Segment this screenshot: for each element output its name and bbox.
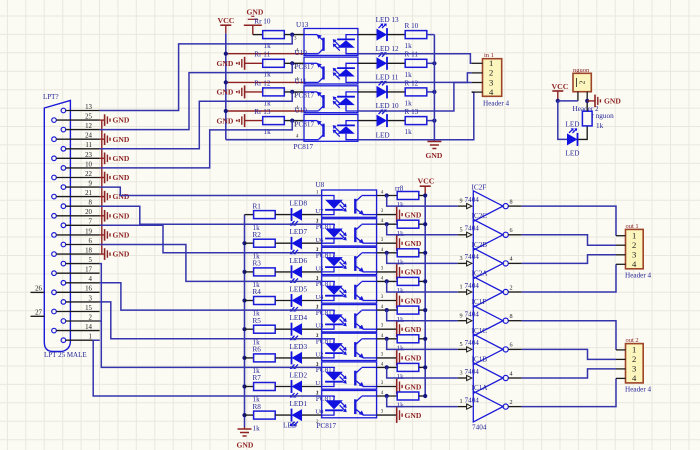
svg-text:IC1A: IC1A bbox=[472, 384, 489, 392]
wire LED to opto pin2 bbox=[302, 300, 322, 302]
pin number 2 bbox=[316, 277, 319, 282]
junction bbox=[290, 33, 294, 37]
label PC817 bbox=[295, 92, 315, 100]
label 7404 bbox=[465, 196, 480, 204]
label PC817 bbox=[316, 338, 336, 346]
svg-text:R 11: R 11 bbox=[405, 51, 419, 59]
junction bbox=[385, 251, 389, 255]
wire GND bus right of top bank bbox=[433, 35, 435, 141]
ground symbol GND at Rr13 bbox=[217, 114, 263, 127]
svg-text:GND: GND bbox=[405, 411, 422, 420]
svg-text:5: 5 bbox=[89, 257, 93, 264]
pin number 3 bbox=[381, 266, 384, 271]
pin number 3 bbox=[381, 238, 384, 243]
optocoupler U10 PC817 channel box bbox=[304, 114, 358, 141]
diode LED 12 bbox=[377, 52, 388, 70]
svg-text:5: 5 bbox=[460, 341, 463, 348]
wire opto pin4 to resistor bbox=[377, 223, 398, 225]
label 1k bbox=[397, 201, 405, 209]
label Header 4 bbox=[483, 99, 510, 107]
wire LPT pin 13 to optocoupler bbox=[100, 35, 293, 111]
wire resistor to LED bbox=[275, 414, 291, 416]
svg-text:1: 1 bbox=[632, 345, 636, 355]
svg-text:GND: GND bbox=[113, 250, 130, 259]
svg-text:1k: 1k bbox=[405, 42, 413, 50]
svg-text:LED3: LED3 bbox=[290, 343, 308, 351]
label 1k bbox=[264, 128, 272, 136]
pin number 2 bbox=[316, 334, 319, 339]
diode LED1 bbox=[290, 409, 302, 427]
svg-text:12: 12 bbox=[85, 123, 92, 130]
junction bbox=[432, 90, 436, 94]
junction bbox=[385, 193, 389, 197]
wire LPT pin 3 to opto channel 6 bbox=[100, 302, 322, 339]
label R8 bbox=[253, 403, 262, 411]
junction bbox=[423, 193, 427, 197]
svg-text:GND: GND bbox=[405, 354, 422, 363]
label PC817 bbox=[316, 252, 336, 260]
wire resistor to bus bbox=[427, 34, 435, 36]
label PC817 bbox=[316, 280, 336, 288]
label U5 bbox=[315, 265, 324, 272]
inverter IC2C 7404 bbox=[458, 219, 522, 250]
label Rr 10 bbox=[254, 18, 271, 26]
label PC817 type bbox=[294, 143, 314, 151]
pin number 2 bbox=[316, 220, 319, 225]
wire pin 1 to LED bbox=[358, 62, 377, 64]
label LED 12 bbox=[376, 45, 399, 53]
svg-text:GND: GND bbox=[405, 382, 422, 391]
pin number 3 bbox=[294, 65, 297, 70]
svg-text:PC817: PC817 bbox=[295, 92, 315, 100]
svg-text:GND: GND bbox=[217, 116, 234, 125]
wire LPT pin 4 to opto channel 5 bbox=[100, 283, 322, 310]
wire inverter IC1B output to header bbox=[522, 369, 616, 378]
resistor rr8 1k unit 5 bbox=[397, 306, 419, 314]
label PC817 type bbox=[317, 422, 337, 430]
optocoupler channel internals bbox=[322, 224, 377, 243]
svg-text:Header 4: Header 4 bbox=[625, 272, 652, 280]
optocoupler U8 channel U2 PC817 box bbox=[322, 333, 377, 360]
ground symbol at pin 20 bbox=[100, 210, 130, 222]
junction bbox=[242, 241, 246, 245]
svg-text:R5: R5 bbox=[253, 317, 262, 325]
ground GND below bus bbox=[426, 141, 443, 161]
wire opto pin3 to ground bbox=[377, 386, 397, 388]
svg-text:9: 9 bbox=[460, 312, 463, 319]
inverter IC2B 7404 bbox=[458, 248, 522, 279]
label 1k bbox=[253, 338, 261, 346]
label 1k bbox=[397, 402, 405, 410]
wire LED to opto pin2 bbox=[302, 242, 322, 244]
ground symbol at pin 21 bbox=[100, 191, 130, 203]
svg-text:IC2B: IC2B bbox=[472, 241, 488, 249]
svg-text:Rr 13: Rr 13 bbox=[254, 108, 271, 116]
wire GND bus at connector bbox=[101, 120, 103, 254]
svg-text:LED: LED bbox=[376, 131, 390, 139]
wire LED to resistor bbox=[388, 62, 406, 64]
optocoupler U10 internals bbox=[304, 63, 358, 83]
svg-text:U6: U6 bbox=[315, 237, 324, 244]
wire LED to resistor bbox=[388, 34, 406, 36]
wire resistor bus bbox=[244, 215, 246, 427]
wire opto pin4 to resistor bbox=[377, 280, 398, 282]
resistor R 12 1k bbox=[405, 88, 427, 96]
svg-text:VCC: VCC bbox=[552, 82, 569, 91]
resistor rr8 1k unit 6 bbox=[397, 335, 419, 343]
pin number 3 bbox=[381, 352, 384, 357]
label Rr 12 bbox=[254, 79, 271, 87]
header J3 out 1 bbox=[616, 229, 643, 269]
optocoupler U8 channel U4 PC817 box bbox=[322, 276, 377, 303]
pin number 1 bbox=[316, 391, 319, 396]
wire resistor to LED bbox=[275, 214, 291, 216]
wire VCC stub to optocoupler pin 4 bbox=[226, 110, 304, 112]
label 1k bbox=[397, 230, 405, 238]
svg-text:GND: GND bbox=[405, 296, 422, 305]
resistor rr8 1k unit 2 bbox=[397, 220, 419, 228]
svg-text:1: 1 bbox=[489, 58, 493, 68]
diode LED nguon bbox=[567, 128, 578, 146]
pin number 4 bbox=[510, 370, 513, 377]
svg-text:10: 10 bbox=[85, 161, 92, 168]
svg-text:4: 4 bbox=[632, 259, 637, 269]
header J2 in 1 bbox=[472, 58, 502, 97]
label LED3 bbox=[290, 343, 308, 351]
junction bbox=[423, 365, 427, 369]
label U4 bbox=[315, 294, 324, 301]
svg-text:LED 11: LED 11 bbox=[376, 73, 399, 81]
wire LED to opto pin2 bbox=[302, 214, 322, 216]
svg-text:R8: R8 bbox=[253, 403, 262, 411]
junction bbox=[385, 279, 389, 283]
junction bbox=[242, 413, 246, 417]
svg-text:6: 6 bbox=[89, 238, 93, 245]
label LED7 bbox=[290, 228, 308, 236]
junction bbox=[242, 298, 246, 302]
pin number 3 bbox=[294, 94, 297, 99]
label IC2A bbox=[472, 269, 489, 277]
label 1k bbox=[397, 259, 405, 267]
junction bbox=[432, 61, 436, 65]
diode LED 10 bbox=[377, 110, 388, 128]
pin number 4 bbox=[381, 276, 384, 281]
junction bbox=[423, 279, 427, 283]
label 7404 bbox=[465, 311, 480, 319]
ground symbol at pin 23 bbox=[100, 153, 130, 165]
resistor R7 1k bbox=[245, 383, 276, 391]
junction bbox=[385, 365, 389, 369]
svg-text:6: 6 bbox=[510, 227, 513, 234]
pin number 1 bbox=[316, 276, 319, 281]
diode LED6 bbox=[290, 265, 302, 283]
wire Rr 10 left stub bbox=[253, 34, 263, 36]
svg-text:LED 13: LED 13 bbox=[376, 16, 399, 24]
svg-text:6: 6 bbox=[510, 342, 513, 349]
svg-text:1k: 1k bbox=[397, 402, 405, 410]
wire resistor to VCC bus bbox=[419, 195, 425, 197]
svg-text:25: 25 bbox=[85, 114, 92, 121]
junction bbox=[224, 80, 228, 84]
label R1 bbox=[253, 202, 262, 210]
svg-text:U10: U10 bbox=[295, 49, 308, 57]
ground symbol GND bbox=[397, 350, 422, 366]
svg-text:LED: LED bbox=[283, 422, 297, 430]
wire LPT pin 10 to optocoupler bbox=[100, 121, 293, 168]
diode LED7 bbox=[290, 237, 302, 255]
label U8 bbox=[315, 181, 324, 189]
wire opto pin3 to ground bbox=[377, 357, 397, 359]
inverter IC1B 7404 bbox=[458, 363, 522, 394]
wire resistor to LED bbox=[275, 300, 291, 302]
wire LED to opto pin2 bbox=[302, 271, 322, 273]
wire LPT pin 2 stub bbox=[100, 320, 102, 322]
wire resistor to VCC bus bbox=[419, 338, 425, 340]
optocoupler channel internals bbox=[322, 367, 377, 386]
label 1k bbox=[397, 287, 405, 295]
pin number 2 bbox=[316, 392, 319, 397]
resistor R2 1k bbox=[245, 239, 276, 247]
optocoupler channel internals bbox=[322, 396, 377, 415]
svg-text:GND: GND bbox=[247, 8, 264, 17]
svg-text:7: 7 bbox=[89, 219, 93, 226]
svg-text:IC1F: IC1F bbox=[472, 298, 487, 306]
optocoupler U8 channel U5 PC817 box bbox=[322, 247, 377, 274]
svg-text:LED7: LED7 bbox=[290, 228, 308, 236]
svg-text:LED: LED bbox=[566, 121, 580, 129]
svg-text:3: 3 bbox=[632, 250, 636, 260]
svg-text:LPT?: LPT? bbox=[43, 93, 59, 101]
wire resistor to LED bbox=[275, 357, 291, 359]
pin number 1 bbox=[316, 334, 319, 339]
label in 1 bbox=[484, 52, 494, 59]
wire LED to opto pin2 bbox=[302, 357, 322, 359]
svg-text:LED6: LED6 bbox=[290, 257, 308, 265]
wire opto pin4 to resistor bbox=[377, 366, 398, 368]
label 1k bbox=[253, 281, 261, 289]
svg-text:GND: GND bbox=[113, 192, 130, 201]
label R 11 bbox=[405, 51, 419, 59]
svg-text:GND: GND bbox=[113, 154, 130, 163]
svg-text:1k: 1k bbox=[397, 230, 405, 238]
label 7404 bbox=[465, 368, 480, 376]
junction bbox=[423, 222, 427, 226]
label U0 bbox=[315, 409, 324, 416]
wire LED to opto pin2 bbox=[302, 386, 322, 388]
svg-text:LED2: LED2 bbox=[290, 372, 308, 380]
wire opto pin3 to ground bbox=[377, 328, 397, 330]
svg-text:IC1B: IC1B bbox=[472, 355, 488, 363]
svg-text:out 2: out 2 bbox=[626, 337, 639, 344]
pin number 2 bbox=[316, 248, 319, 253]
resistor R3 1k bbox=[245, 268, 276, 276]
label LED type bbox=[283, 422, 297, 430]
svg-text:GND: GND bbox=[405, 268, 422, 277]
junction bbox=[242, 327, 246, 331]
optocoupler U8 channel U3 PC817 box bbox=[322, 305, 377, 332]
label U1 bbox=[315, 380, 323, 387]
wire resistor to VCC bus bbox=[419, 223, 425, 225]
wire collector tap to inverter IC2C bbox=[387, 224, 458, 235]
label R6 bbox=[253, 346, 262, 354]
svg-text:2: 2 bbox=[578, 80, 587, 84]
pin number 1 bbox=[316, 219, 319, 224]
label R3 bbox=[253, 260, 262, 268]
svg-text:U4: U4 bbox=[315, 294, 324, 301]
label 1k bbox=[405, 128, 413, 136]
wire LED to resistor bbox=[388, 91, 406, 93]
connector J1 LPT 25 MALE body bbox=[43, 93, 87, 359]
wire inverter IC2A output to header bbox=[522, 264, 616, 292]
pin number 3 bbox=[381, 324, 384, 329]
wire VCC pullup bus bbox=[424, 196, 426, 397]
ground symbol at pin 22 bbox=[100, 172, 130, 184]
svg-text:out 1: out 1 bbox=[626, 223, 639, 230]
ground symbol GND at Rr12 bbox=[217, 85, 263, 98]
svg-text:1: 1 bbox=[460, 398, 463, 405]
wire collector tap to inverter IC1A bbox=[387, 396, 458, 407]
svg-text:7404: 7404 bbox=[465, 311, 480, 319]
label U13 bbox=[296, 21, 309, 29]
power VCC label bbox=[218, 16, 235, 33]
svg-text:27: 27 bbox=[35, 309, 42, 316]
label LED bbox=[566, 121, 580, 129]
wire opto pin3 to ground bbox=[377, 271, 397, 273]
svg-text:19: 19 bbox=[85, 228, 92, 235]
svg-text:R 10: R 10 bbox=[405, 22, 419, 30]
label 7404 bbox=[465, 282, 480, 290]
label IC2B bbox=[472, 241, 488, 249]
label 1k bbox=[253, 396, 261, 404]
label 1k bbox=[264, 99, 272, 107]
svg-text:GND: GND bbox=[113, 173, 130, 182]
ground symbol at pin 25 bbox=[100, 114, 130, 126]
svg-text:PC817: PC817 bbox=[317, 422, 337, 430]
resistor Rr 11 1k bbox=[263, 59, 285, 67]
label 1k bbox=[596, 122, 604, 130]
junction bbox=[385, 394, 389, 398]
pin number 2 bbox=[316, 363, 319, 368]
svg-text:VCC: VCC bbox=[218, 16, 235, 25]
junction bbox=[385, 337, 389, 341]
wire resistor to bus bbox=[427, 120, 435, 122]
junction bbox=[423, 394, 427, 398]
svg-text:5: 5 bbox=[460, 226, 463, 233]
svg-text:1k: 1k bbox=[405, 100, 413, 108]
wire resistor to LED bbox=[275, 386, 291, 388]
resistor rr8 1k unit 3 bbox=[397, 249, 419, 257]
svg-text:15: 15 bbox=[85, 305, 92, 312]
label 1k bbox=[253, 224, 261, 232]
wire opto pin3 to ground bbox=[377, 300, 397, 302]
label U7 bbox=[315, 208, 324, 215]
wire resistor to LED bbox=[275, 271, 291, 273]
svg-text:Header 4: Header 4 bbox=[483, 99, 510, 107]
svg-text:8: 8 bbox=[510, 198, 513, 205]
wire LED to opto pin2 bbox=[302, 414, 322, 416]
svg-text:3: 3 bbox=[460, 370, 463, 377]
svg-text:8: 8 bbox=[89, 200, 93, 207]
optocoupler U10 internals bbox=[304, 120, 358, 140]
wire resistor to VCC bus bbox=[419, 395, 425, 397]
wire inverter IC2C output to header bbox=[522, 235, 616, 245]
label PC817 bbox=[316, 223, 336, 231]
wire VCC to header pin1 bbox=[558, 100, 578, 102]
wire pin 1 to LED bbox=[358, 91, 377, 93]
svg-text:11: 11 bbox=[85, 142, 92, 149]
label LED1 bbox=[290, 400, 308, 408]
label 1k bbox=[253, 310, 261, 318]
svg-text:26: 26 bbox=[35, 285, 42, 292]
pin number 4 bbox=[296, 135, 299, 140]
label R7 bbox=[253, 374, 262, 382]
svg-text:LED1: LED1 bbox=[290, 400, 308, 408]
ground symbol at pin 18 bbox=[100, 248, 130, 260]
svg-text:LED4: LED4 bbox=[290, 314, 308, 322]
ground symbol GND bbox=[397, 207, 422, 223]
pin number 1 bbox=[316, 305, 319, 310]
svg-text:1: 1 bbox=[460, 284, 463, 291]
svg-text:LPT 25 MALE: LPT 25 MALE bbox=[44, 351, 87, 359]
wire LPT pin 5 to opto channel 7 bbox=[100, 264, 322, 368]
svg-text:LED: LED bbox=[566, 149, 580, 157]
svg-text:3: 3 bbox=[460, 255, 463, 262]
label R 10 bbox=[405, 22, 419, 30]
optocoupler channel internals bbox=[322, 281, 377, 300]
label PC817 bbox=[295, 63, 315, 71]
ground symbol GND bbox=[397, 293, 422, 309]
wire opto pin4 to resistor bbox=[377, 395, 398, 397]
pin number 6 bbox=[510, 342, 513, 349]
svg-text:1k: 1k bbox=[405, 128, 413, 136]
svg-text:4: 4 bbox=[510, 370, 513, 377]
wire opto pin3 to ground bbox=[377, 214, 397, 216]
svg-text:U3: U3 bbox=[315, 323, 324, 330]
optocoupler U8 channel U7 PC817 box bbox=[322, 190, 377, 217]
optocoupler channel internals bbox=[322, 196, 377, 215]
label nguon bbox=[573, 67, 590, 74]
ground GND top symbol bbox=[244, 8, 264, 35]
wire collector tap to inverter IC2B bbox=[387, 253, 458, 264]
svg-text:7404: 7404 bbox=[465, 196, 480, 204]
optocoupler U11 PC817 channel box bbox=[304, 86, 358, 113]
label LED5 bbox=[290, 286, 308, 294]
wire resistor to pin 3 bbox=[284, 120, 304, 122]
svg-text:8: 8 bbox=[510, 313, 513, 320]
wire resistor to VCC bus bbox=[419, 280, 425, 282]
label R2 bbox=[253, 231, 262, 239]
svg-text:R1: R1 bbox=[253, 202, 262, 210]
svg-text:U7: U7 bbox=[315, 208, 324, 215]
junction bbox=[242, 270, 246, 274]
svg-text:Header 4: Header 4 bbox=[625, 386, 652, 394]
label rr8 bbox=[395, 185, 404, 193]
svg-text:1k: 1k bbox=[397, 259, 405, 267]
svg-text:7404: 7404 bbox=[465, 396, 480, 404]
diode LED 13 bbox=[377, 24, 388, 42]
svg-text:GND: GND bbox=[405, 239, 422, 248]
wire resistor to VCC bus bbox=[419, 252, 425, 254]
svg-text:R6: R6 bbox=[253, 346, 262, 354]
svg-text:1k: 1k bbox=[397, 287, 405, 295]
label IC1F bbox=[472, 298, 487, 306]
svg-text:R2: R2 bbox=[253, 231, 262, 239]
junction bbox=[224, 109, 228, 113]
svg-text:23: 23 bbox=[85, 152, 92, 159]
label 7404 bbox=[465, 339, 480, 347]
label 1k bbox=[253, 252, 261, 260]
pin number 4 bbox=[381, 248, 384, 253]
